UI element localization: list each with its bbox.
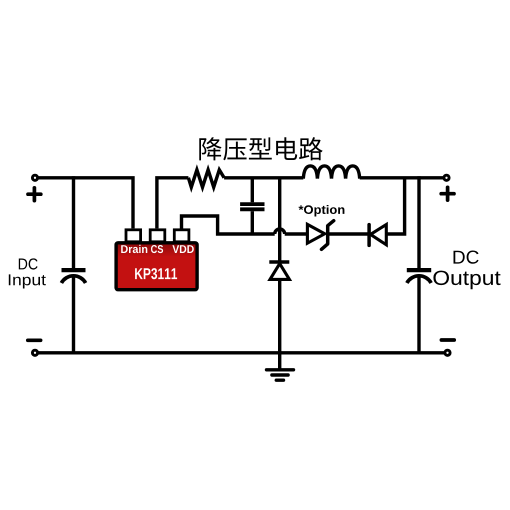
wire zener to D2 bbox=[328, 232, 369, 235]
label DC Input bbox=[9, 258, 46, 288]
plus sign output bbox=[441, 187, 454, 200]
resistor R1 bbox=[188, 170, 224, 187]
IC U1 KP3111 body bbox=[116, 243, 197, 290]
label DC Output bbox=[433, 251, 500, 290]
wire bottom rail bbox=[38, 351, 445, 354]
wire CS riser bbox=[157, 178, 189, 229]
wire VDD to option line bbox=[182, 216, 275, 234]
terminal input + bbox=[32, 175, 37, 180]
title 降压型电路 bbox=[199, 137, 322, 160]
terminal input - bbox=[32, 350, 37, 355]
minus sign output bbox=[441, 338, 454, 342]
terminal output + bbox=[444, 175, 449, 180]
diode D3 freewheel bbox=[269, 262, 289, 279]
wire input cap branch top bbox=[72, 176, 75, 268]
wire C2 bottom stub bbox=[251, 211, 254, 235]
capacitor C1 input bbox=[61, 270, 85, 283]
pin VDD bbox=[174, 230, 189, 242]
wire hop to zener bbox=[285, 232, 308, 235]
terminal output - bbox=[445, 350, 450, 355]
capacitor C3 output bbox=[407, 270, 431, 283]
wire output cap branch bbox=[417, 176, 420, 268]
wire D3 anode to ground rail bbox=[278, 279, 281, 354]
wire hop over switch drop bbox=[275, 229, 285, 234]
wire D2 to output riser bbox=[386, 178, 404, 234]
wire output cap bottom bbox=[417, 276, 420, 354]
wire switch node drop bbox=[278, 178, 281, 261]
wire switch rail bbox=[224, 176, 303, 179]
wire output rail bbox=[360, 176, 444, 179]
wire top-left rail to Drain bbox=[38, 178, 133, 229]
wire C2 top stub bbox=[251, 178, 254, 203]
plus sign input bbox=[28, 188, 41, 201]
wire input cap branch bottom bbox=[72, 276, 75, 354]
diode D1 zener bbox=[307, 221, 333, 250]
pin CS bbox=[150, 230, 165, 242]
ground bbox=[267, 353, 294, 380]
inductor L1 bbox=[303, 166, 359, 179]
label *Option bbox=[299, 205, 345, 217]
pin Drain bbox=[126, 230, 141, 242]
minus sign input bbox=[28, 338, 41, 342]
label KP3111 bbox=[135, 268, 177, 279]
capacitor C2 bbox=[240, 204, 264, 209]
diode D2 bbox=[369, 225, 386, 246]
label pin names bbox=[121, 245, 194, 253]
